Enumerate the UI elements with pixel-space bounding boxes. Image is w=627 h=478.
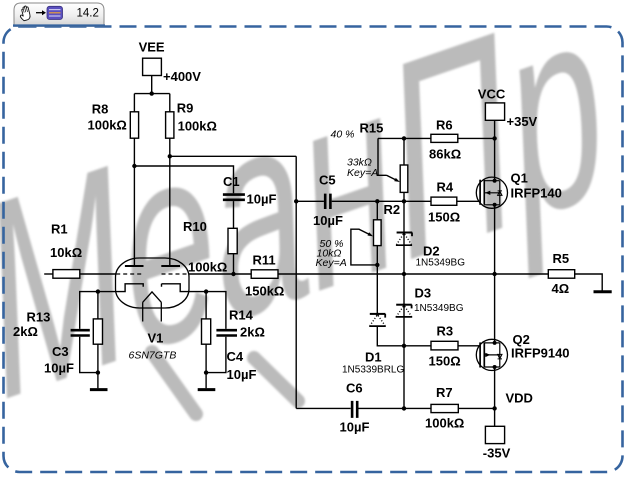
svg-text:2kΩ: 2kΩ bbox=[13, 324, 38, 339]
svg-text:VDD: VDD bbox=[506, 391, 533, 406]
svg-text:IRFP9140: IRFP9140 bbox=[511, 346, 570, 361]
wire C5 R4 gate line bbox=[296, 200, 480, 202]
vacuum tube V1 envelope bbox=[116, 258, 190, 308]
svg-text:10µF: 10µF bbox=[44, 361, 74, 376]
wire C1 to R10 bbox=[233, 201, 235, 228]
wire ground stub mid bbox=[205, 373, 207, 389]
capacitor C6 bbox=[352, 401, 357, 418]
capacitor C3 bbox=[71, 330, 90, 335]
junction Q1 source internal bbox=[493, 203, 497, 207]
svg-text:1N5349BG: 1N5349BG bbox=[416, 258, 466, 269]
wire R3 line bbox=[404, 345, 480, 347]
wire Q2 to VDD bbox=[494, 367, 496, 408]
wire R5 to ground bbox=[575, 274, 603, 291]
wire ground stub left bbox=[97, 373, 99, 389]
svg-text:C1: C1 bbox=[223, 174, 240, 189]
wire R8 to plate bbox=[133, 138, 135, 266]
resistor R4 bbox=[431, 197, 457, 205]
svg-text:R13: R13 bbox=[27, 310, 51, 325]
wire R10 to main line bbox=[233, 254, 235, 274]
junction C6 / R7 bbox=[402, 406, 406, 410]
svg-text:D3: D3 bbox=[415, 286, 432, 301]
hand icon bbox=[18, 5, 31, 21]
svg-text:1N5349BG: 1N5349BG bbox=[414, 303, 464, 314]
svg-text:150Ω: 150Ω bbox=[428, 210, 460, 225]
tab bbox=[13, 3, 105, 26]
zener diode D1 bbox=[369, 313, 386, 326]
svg-text:C3: C3 bbox=[52, 344, 69, 359]
ground (output) bbox=[594, 290, 612, 293]
svg-text:+400V: +400V bbox=[163, 69, 201, 84]
svg-text:-35V: -35V bbox=[483, 446, 511, 461]
svg-text:R1: R1 bbox=[51, 222, 68, 237]
zener diode D3 bbox=[396, 304, 413, 317]
V1 left grid bbox=[116, 273, 143, 275]
svg-text:C6: C6 bbox=[346, 381, 363, 396]
junction Q2 internal bottom bbox=[493, 365, 497, 369]
capacitor C4 bbox=[216, 330, 237, 335]
svg-text:V1: V1 bbox=[148, 331, 164, 346]
resistor R14 bbox=[202, 319, 211, 344]
svg-text:2kΩ: 2kΩ bbox=[240, 325, 265, 340]
resistor R11 bbox=[251, 270, 278, 279]
svg-text:14.2: 14.2 bbox=[77, 8, 99, 20]
wire tube to R11 bbox=[189, 273, 252, 275]
svg-text:Key=A: Key=A bbox=[316, 257, 347, 269]
svg-text:R8: R8 bbox=[92, 102, 109, 117]
wire C4 branch bbox=[206, 292, 226, 373]
svg-text:Key=A: Key=A bbox=[347, 167, 378, 179]
wire D2 vertical bbox=[403, 201, 405, 274]
junction cathode left bbox=[96, 289, 100, 293]
wire long vertical x296 bbox=[295, 156, 297, 408]
V1 heater bbox=[143, 292, 162, 322]
svg-text:R6: R6 bbox=[436, 118, 453, 133]
svg-text:R4: R4 bbox=[437, 180, 454, 195]
svg-text:100kΩ: 100kΩ bbox=[88, 118, 127, 133]
power VEE square bbox=[143, 58, 162, 75]
wire R15 top to R6 line bbox=[403, 138, 405, 165]
svg-text:D2: D2 bbox=[423, 244, 440, 259]
wire R14 bottom bbox=[205, 344, 207, 372]
capacitor C5 bbox=[325, 194, 330, 209]
junction R15 bottom / D2 top bbox=[402, 199, 406, 203]
junction output node bbox=[492, 272, 496, 276]
junction VCC / R6 right / Q1 drain bbox=[492, 136, 496, 140]
junction R10 on output line bbox=[231, 272, 235, 276]
svg-text:10µF: 10µF bbox=[313, 213, 343, 228]
junction cathode right bbox=[204, 289, 208, 293]
junction R2 bottom / wiper bbox=[375, 263, 379, 267]
junction R13/C3 ground bbox=[96, 370, 100, 374]
capacitor C1 bbox=[223, 195, 245, 200]
arrow bbox=[36, 10, 46, 15]
resistor R8 bbox=[130, 112, 138, 138]
svg-text:6SN7GTB: 6SN7GTB bbox=[129, 350, 177, 362]
wire R9 to plate bbox=[169, 138, 171, 266]
svg-text:86kΩ: 86kΩ bbox=[429, 147, 461, 162]
wire D1 bottom bbox=[377, 326, 404, 346]
junction R15 top / R6 left bbox=[402, 136, 406, 140]
V1 left plate bbox=[125, 265, 144, 267]
svg-text:R7: R7 bbox=[436, 385, 453, 400]
potentiometer R2 bbox=[368, 220, 382, 246]
svg-text:VEE: VEE bbox=[139, 40, 165, 55]
svg-text:1N5339BRLG: 1N5339BRLG bbox=[342, 365, 404, 376]
mosfet Q1 bbox=[476, 177, 507, 208]
svg-text:R15: R15 bbox=[360, 121, 384, 136]
wire cathode left node bbox=[98, 284, 143, 292]
wire R15 wiper bbox=[378, 138, 397, 180]
wire R13 bottom bbox=[97, 344, 99, 372]
wire cathode right node bbox=[162, 284, 207, 292]
svg-text:R14: R14 bbox=[229, 308, 254, 323]
toolbar icon bbox=[47, 6, 63, 19]
wire C6 line bbox=[296, 407, 431, 409]
svg-text:R3: R3 bbox=[437, 324, 454, 339]
svg-text:10µF: 10µF bbox=[227, 367, 257, 382]
junction R9/C5 branch bbox=[168, 154, 172, 158]
wire VCC to Q1 drain bbox=[494, 138, 496, 180]
junction R14/C4 ground bbox=[204, 370, 208, 374]
svg-text:10µF: 10µF bbox=[340, 420, 370, 435]
wire output to Q2 bbox=[494, 274, 496, 343]
svg-text:IRFP140: IRFP140 bbox=[511, 186, 562, 201]
svg-text:R2: R2 bbox=[384, 202, 401, 217]
zener diode D2 bbox=[396, 232, 412, 246]
junction Q1 drain internal bbox=[493, 179, 497, 183]
svg-text:R9: R9 bbox=[177, 101, 194, 116]
power VDD square bbox=[485, 426, 504, 443]
svg-text:C5: C5 bbox=[319, 173, 336, 188]
wire R11 to R5 bbox=[278, 273, 548, 275]
resistor R9 bbox=[166, 112, 174, 138]
wire R6 line bbox=[378, 137, 495, 139]
V1 right grid bbox=[162, 273, 189, 275]
ground (mid) bbox=[198, 388, 216, 391]
svg-text:+35V: +35V bbox=[507, 114, 538, 129]
ground (left) bbox=[90, 388, 108, 391]
potentiometer R15 bbox=[394, 165, 408, 192]
wire R9 branch bbox=[170, 155, 296, 157]
svg-text:150Ω: 150Ω bbox=[429, 354, 461, 369]
junction R2 top bbox=[375, 199, 379, 203]
wire VCC lead bbox=[494, 120, 496, 138]
resistor R13 bbox=[93, 319, 102, 344]
junction Q2 internal top bbox=[493, 341, 497, 345]
svg-text:R11: R11 bbox=[253, 253, 276, 268]
svg-text:100kΩ: 100kΩ bbox=[188, 260, 227, 275]
resistor R3 bbox=[431, 341, 458, 350]
svg-text:R5: R5 bbox=[553, 251, 570, 266]
junction VEE splitter bbox=[150, 91, 154, 95]
svg-text:150kΩ: 150kΩ bbox=[245, 284, 284, 299]
resistor R10 bbox=[228, 228, 237, 253]
wire R2 top bbox=[376, 201, 378, 220]
mosfet Q2 bbox=[476, 339, 507, 370]
wire VEE lead bbox=[134, 76, 169, 112]
power VCC square bbox=[485, 103, 504, 120]
wire R2 wiper bracket bbox=[351, 229, 377, 265]
wire R13 top bbox=[97, 292, 99, 319]
svg-text:10µF: 10µF bbox=[247, 192, 277, 207]
svg-text:4Ω: 4Ω bbox=[552, 281, 570, 296]
wire input stub bbox=[44, 273, 53, 275]
resistor R5 bbox=[548, 270, 574, 279]
svg-text:Q1: Q1 bbox=[511, 171, 528, 186]
svg-text:100kΩ: 100kΩ bbox=[178, 119, 217, 134]
wire D junction down bbox=[403, 346, 405, 409]
wire Q1 source to output bbox=[494, 205, 496, 274]
resistor R7 bbox=[431, 404, 458, 412]
wire R7 right bbox=[458, 407, 494, 409]
svg-text:C4: C4 bbox=[227, 349, 244, 364]
resistor R1 bbox=[53, 270, 80, 279]
junction D1/D3/R3 bbox=[402, 344, 406, 348]
junction R8/C1 branch bbox=[132, 164, 136, 168]
resistor R6 bbox=[431, 134, 458, 142]
junction D2 bottom / D3 top bbox=[402, 272, 406, 276]
wire R14 top bbox=[205, 292, 207, 319]
svg-text:10kΩ: 10kΩ bbox=[50, 245, 82, 260]
wire C3 branch bbox=[80, 292, 98, 373]
junction C5 left bbox=[294, 199, 298, 203]
wire R15 bottom bbox=[403, 192, 405, 201]
V1 right plate bbox=[161, 265, 180, 267]
wire D3 vertical bbox=[403, 274, 405, 346]
junction R7 / Q2 / VDD bbox=[492, 406, 496, 410]
svg-text:D1: D1 bbox=[365, 350, 382, 365]
wire R8 branch to C1 bbox=[134, 166, 233, 193]
wire VDD lead bbox=[494, 408, 496, 426]
svg-text:40 %: 40 % bbox=[331, 129, 355, 141]
wire R2 bottom to D1 bbox=[376, 246, 378, 314]
wire R1 to tube bbox=[80, 273, 116, 275]
svg-text:VCC: VCC bbox=[478, 87, 506, 102]
svg-text:R10: R10 bbox=[183, 219, 207, 234]
svg-text:100kΩ: 100kΩ bbox=[425, 416, 464, 431]
